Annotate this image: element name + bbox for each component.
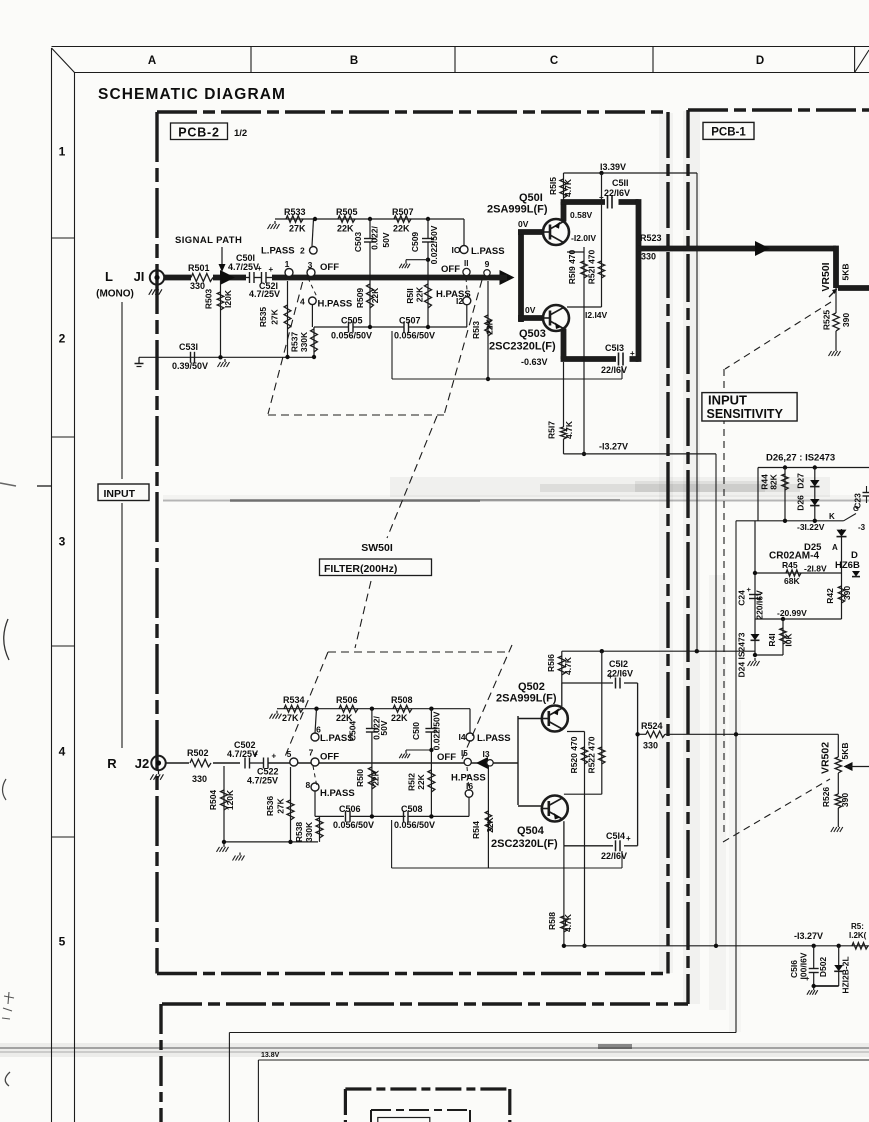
svg-text:I2.I4V: I2.I4V	[585, 310, 608, 320]
svg-text:0V: 0V	[525, 305, 536, 315]
svg-text:A: A	[148, 55, 156, 67]
svg-text:R525: R525	[822, 310, 832, 331]
svg-text:0.056/50V: 0.056/50V	[331, 331, 372, 341]
svg-text:R534: R534	[283, 695, 305, 705]
svg-text:D26: D26	[796, 495, 806, 511]
svg-text:R5I2: R5I2	[407, 773, 417, 791]
svg-text:C24: C24	[737, 590, 747, 606]
svg-text:C5I2: C5I2	[609, 659, 628, 669]
svg-text:22K: 22K	[416, 773, 426, 789]
svg-text:22K: 22K	[337, 224, 354, 234]
svg-text:-I3.27V: -I3.27V	[599, 442, 628, 452]
svg-text:R4I: R4I	[767, 633, 777, 646]
svg-text:3: 3	[308, 260, 313, 270]
svg-text:-0.63V: -0.63V	[521, 357, 548, 367]
svg-text:22K: 22K	[393, 224, 410, 234]
svg-text:PCB-2: PCB-2	[178, 126, 220, 140]
svg-text:4.7/25V: 4.7/25V	[247, 776, 278, 786]
svg-text:2: 2	[300, 246, 305, 256]
svg-text:0.022/50V: 0.022/50V	[429, 225, 439, 264]
svg-text:1: 1	[285, 259, 290, 269]
svg-text:R504: R504	[208, 790, 218, 811]
svg-text:I20K: I20K	[223, 289, 233, 308]
svg-text:330: 330	[192, 774, 207, 784]
svg-text:R537: R537	[290, 332, 300, 353]
svg-text:Q502: Q502	[518, 681, 545, 693]
svg-text:R5I0: R5I0	[355, 769, 365, 787]
svg-text:22K: 22K	[371, 769, 381, 785]
svg-text:27K: 27K	[270, 308, 280, 324]
svg-text:I4: I4	[458, 732, 465, 742]
svg-text:-3I.22V: -3I.22V	[797, 522, 825, 532]
svg-text:VR502: VR502	[820, 742, 832, 774]
svg-text:5KB: 5KB	[840, 742, 850, 759]
svg-text:+: +	[269, 265, 274, 274]
svg-text:R520 470: R520 470	[569, 736, 579, 773]
svg-text:0V: 0V	[518, 219, 529, 229]
svg-text:22/I6V: 22/I6V	[604, 188, 630, 198]
svg-text:22K: 22K	[485, 816, 495, 832]
svg-text:2SA999L(F): 2SA999L(F)	[487, 204, 548, 216]
svg-text:D502: D502	[818, 957, 828, 978]
svg-text:R501: R501	[188, 263, 210, 273]
svg-text:R523: R523	[640, 233, 662, 243]
svg-text:R503: R503	[204, 289, 214, 310]
svg-text:390: 390	[840, 793, 850, 807]
svg-text:9: 9	[485, 259, 490, 269]
svg-text:K: K	[829, 512, 835, 521]
svg-text:A: A	[832, 543, 838, 552]
svg-text:I.2K(: I.2K(	[849, 931, 867, 940]
svg-text:0.39/50V: 0.39/50V	[172, 361, 208, 371]
svg-text:INPUT: INPUT	[708, 393, 747, 408]
svg-text:R5I5: R5I5	[548, 177, 558, 195]
svg-text:+: +	[626, 834, 631, 843]
svg-text:C5I4: C5I4	[606, 831, 625, 841]
svg-text:C5I6: C5I6	[789, 960, 799, 978]
svg-text:R507: R507	[392, 207, 414, 217]
svg-text:0.056/50V: 0.056/50V	[394, 331, 435, 341]
svg-text:0.056/50V: 0.056/50V	[394, 820, 435, 830]
svg-text:1/2: 1/2	[234, 128, 247, 139]
svg-text:C5II: C5II	[612, 178, 629, 188]
svg-text:4.7K: 4.7K	[563, 913, 573, 932]
svg-text:L.PASS: L.PASS	[261, 246, 295, 257]
svg-text:C: C	[550, 55, 558, 67]
svg-text:2: 2	[59, 332, 66, 346]
svg-text:2SA999L(F): 2SA999L(F)	[496, 693, 557, 705]
svg-text:L: L	[105, 269, 113, 284]
svg-text:4.7/25V: 4.7/25V	[227, 749, 258, 759]
svg-text:C506: C506	[339, 804, 361, 814]
svg-text:4.7K: 4.7K	[563, 656, 573, 675]
svg-text:22K: 22K	[391, 713, 408, 723]
svg-text:R5I8: R5I8	[547, 912, 557, 930]
svg-text:C507: C507	[399, 316, 421, 326]
svg-text:390: 390	[841, 313, 851, 327]
svg-text:Q503: Q503	[519, 328, 546, 340]
svg-text:PCB-1: PCB-1	[711, 127, 746, 139]
svg-text:7: 7	[309, 748, 314, 758]
svg-text:C23: C23	[853, 493, 863, 509]
svg-text:22K: 22K	[415, 286, 425, 302]
svg-text:R506: R506	[336, 695, 358, 705]
svg-text:R524: R524	[641, 721, 663, 731]
svg-text:0.056/50V: 0.056/50V	[333, 820, 374, 830]
svg-text:13.8V: 13.8V	[261, 1052, 280, 1059]
svg-text:R5:: R5:	[851, 922, 864, 931]
svg-text:+: +	[272, 752, 277, 761]
svg-text:R509: R509	[355, 288, 365, 309]
svg-text:27K: 27K	[282, 713, 299, 723]
svg-text:22/I6V: 22/I6V	[601, 851, 627, 861]
svg-text:R5I9 470: R5I9 470	[567, 249, 577, 284]
svg-text:330: 330	[643, 741, 658, 751]
svg-text:II: II	[464, 259, 468, 268]
svg-text:B: B	[350, 55, 358, 67]
svg-text:+: +	[630, 349, 635, 358]
svg-text:OFF: OFF	[320, 262, 339, 273]
svg-text:OFF: OFF	[437, 752, 456, 763]
svg-text:-I3.27V: -I3.27V	[794, 931, 823, 941]
svg-text:HZ6B: HZ6B	[835, 560, 860, 571]
svg-text:0.022/50V: 0.022/50V	[432, 711, 442, 750]
svg-text:22K: 22K	[370, 287, 380, 303]
svg-text:OFF: OFF	[441, 264, 460, 275]
svg-text:0.58V: 0.58V	[570, 210, 593, 220]
svg-text:330K: 330K	[304, 821, 314, 842]
svg-text:I0K: I0K	[784, 633, 794, 647]
svg-text:Q50I: Q50I	[519, 192, 543, 204]
svg-text:R5I4: R5I4	[471, 821, 481, 839]
svg-text:120K: 120K	[225, 789, 235, 810]
svg-text:50V: 50V	[381, 232, 391, 247]
svg-text:SIGNAL PATH: SIGNAL PATH	[175, 235, 242, 246]
svg-text:R502: R502	[187, 748, 209, 758]
svg-text:INPUT: INPUT	[104, 488, 136, 500]
svg-text:5: 5	[59, 935, 66, 949]
svg-text:R52I 470: R52I 470	[587, 249, 597, 284]
svg-text:-2I.8V: -2I.8V	[804, 564, 827, 574]
svg-text:68K: 68K	[784, 576, 800, 586]
svg-text:R533: R533	[284, 207, 306, 217]
svg-text:5KB: 5KB	[841, 263, 851, 280]
svg-text:R45: R45	[782, 560, 798, 570]
svg-text:C5I0: C5I0	[411, 722, 421, 740]
svg-text:-I2.0IV: -I2.0IV	[571, 233, 596, 243]
svg-text:L.PASS: L.PASS	[477, 733, 511, 744]
svg-text:C504: C504	[348, 721, 358, 742]
svg-text:R5I6: R5I6	[546, 654, 556, 672]
svg-text:330K: 330K	[299, 331, 309, 352]
svg-text:390: 390	[842, 586, 852, 600]
svg-text:4.7/25V: 4.7/25V	[249, 289, 280, 299]
svg-text:R508: R508	[391, 695, 413, 705]
svg-text:SENSITIVITY: SENSITIVITY	[707, 407, 784, 421]
svg-text:2SC2320L(F): 2SC2320L(F)	[489, 341, 556, 353]
svg-text:1: 1	[59, 145, 66, 159]
svg-text:JI: JI	[134, 269, 145, 284]
svg-text:-20.99V: -20.99V	[777, 608, 807, 618]
svg-text:H.PASS: H.PASS	[320, 788, 355, 799]
svg-text:330: 330	[641, 252, 656, 262]
svg-text:IO: IO	[452, 245, 461, 255]
svg-text:C505: C505	[341, 316, 363, 326]
svg-text:VR50I: VR50I	[820, 262, 832, 291]
svg-text:H.PASS: H.PASS	[318, 299, 353, 310]
svg-text:I3.39V: I3.39V	[600, 162, 626, 172]
svg-text:+: +	[747, 585, 752, 594]
svg-text:C503: C503	[353, 232, 363, 253]
svg-text:8: 8	[306, 780, 311, 790]
svg-text:27K: 27K	[276, 797, 286, 813]
svg-text:I00/I6V: I00/I6V	[799, 952, 809, 979]
svg-text:C53I: C53I	[179, 342, 198, 352]
svg-text:50V: 50V	[379, 720, 389, 735]
svg-text:R505: R505	[336, 207, 358, 217]
svg-text:OFF: OFF	[320, 752, 339, 763]
svg-text:4: 4	[300, 297, 305, 307]
svg-text:22/I6V: 22/I6V	[607, 669, 633, 679]
svg-text:FILTER(200Hz): FILTER(200Hz)	[324, 563, 397, 575]
svg-text:SCHEMATIC DIAGRAM: SCHEMATIC DIAGRAM	[98, 86, 286, 103]
svg-text:L.PASS: L.PASS	[471, 246, 505, 257]
svg-text:HZI2B-2L: HZI2B-2L	[841, 956, 851, 993]
svg-text:D24 IS2473: D24 IS2473	[737, 632, 747, 677]
svg-text:(MONO): (MONO)	[96, 289, 134, 300]
svg-text:27K: 27K	[289, 224, 306, 234]
svg-text:C5I3: C5I3	[605, 343, 624, 353]
svg-text:-3: -3	[858, 523, 866, 532]
svg-text:R: R	[107, 756, 117, 771]
svg-text:4: 4	[59, 745, 66, 759]
svg-text:22/I6V: 22/I6V	[601, 365, 627, 375]
svg-text:2SC2320L(F): 2SC2320L(F)	[491, 838, 558, 850]
svg-text:220/I6V: 220/I6V	[755, 590, 765, 620]
svg-text:Q504: Q504	[517, 825, 545, 837]
svg-text:R535: R535	[258, 307, 268, 328]
svg-text:D27: D27	[796, 473, 806, 489]
svg-text:R536: R536	[265, 796, 275, 817]
svg-text:D26,27 : IS2473: D26,27 : IS2473	[766, 453, 835, 464]
svg-text:SW50I: SW50I	[361, 542, 393, 554]
svg-text:0.022/: 0.022/	[370, 226, 380, 250]
svg-text:R538: R538	[294, 822, 304, 843]
svg-text:R522 470: R522 470	[587, 736, 597, 773]
svg-text:R5II: R5II	[405, 288, 415, 304]
svg-text:C509: C509	[410, 232, 420, 253]
svg-text:J2: J2	[135, 756, 149, 771]
svg-text:R526: R526	[821, 787, 831, 808]
svg-text:I3: I3	[482, 749, 489, 759]
svg-text:4.7/25V: 4.7/25V	[228, 262, 259, 272]
svg-text:82K: 82K	[769, 473, 779, 489]
svg-text:C508: C508	[401, 804, 423, 814]
svg-text:R5I7: R5I7	[547, 421, 557, 439]
svg-text:D: D	[756, 55, 764, 67]
svg-text:22K: 22K	[485, 318, 495, 334]
svg-text:R42: R42	[825, 588, 835, 604]
svg-text:3: 3	[59, 535, 66, 549]
svg-text:R5I3: R5I3	[471, 321, 481, 339]
svg-text:4.7K: 4.7K	[564, 420, 574, 439]
svg-text:4.7K: 4.7K	[563, 178, 573, 197]
